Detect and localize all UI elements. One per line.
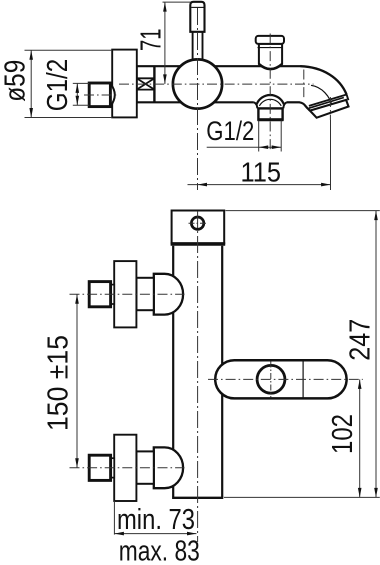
dim min73 line: [114, 533, 196, 535]
svg-text:115: 115: [241, 157, 282, 188]
diverter knob body: [259, 44, 282, 69]
svg-text:150 ±15: 150 ±15: [42, 335, 74, 431]
dim min73 extension line left: [113, 501, 115, 535]
dim 247 extension line top: [225, 210, 379, 212]
centerline: diverter axis: [269, 34, 271, 153]
shower outlet nipple G1/2: [258, 108, 282, 119]
diverter knob base arc (thick): [259, 64, 282, 69]
bottom inlet nut: [89, 455, 110, 480]
dim ø59 line: [30, 50, 32, 117]
top inlet cylinder: [136, 278, 153, 310]
shower outlet dome inner arc (thin): [259, 99, 281, 106]
spout underside step: [299, 102, 310, 110]
wall escutcheon (side): [112, 50, 137, 118]
dim G1/2 bottom extension lines: [258, 121, 260, 152]
centerline: main body axis: [119, 83, 314, 85]
centerline: lever axis: [197, 8, 199, 190]
svg-text:max. 83: max. 83: [119, 535, 200, 565]
centerline: nut axis: [84, 94, 119, 96]
lever rod: [192, 32, 194, 62]
check valve box verticals: [136, 66, 138, 102]
capsule seam line: [302, 361, 304, 398]
union bead: [110, 84, 114, 107]
dim 150 line: [76, 294, 78, 468]
top inlet union bulge: [154, 274, 183, 315]
shower outlet left wing: [254, 102, 258, 108]
svg-text:102: 102: [327, 414, 359, 454]
bracket bottom thick line: [171, 242, 226, 245]
dim G1/2 left line: [76, 83, 78, 105]
top inlet escutcheon: [114, 261, 136, 327]
spout outer bend curve: [300, 66, 346, 94]
dim ø59 extension lines: [25, 49, 113, 51]
fixing screw: [191, 217, 203, 229]
spout aerator: [310, 100, 349, 118]
centerline: capsule axis: [208, 378, 363, 380]
spout collar (ring groove): [309, 95, 347, 106]
spout inner bend curve (thin): [311, 85, 332, 107]
dim G1/2 bottom line: [207, 146, 282, 148]
svg-text:247: 247: [345, 319, 377, 361]
svg-text:G1/2: G1/2: [206, 116, 254, 146]
dim 71 extension line top: [163, 1, 191, 3]
column body: [173, 246, 222, 498]
centerline: bottom inlet axis: [70, 467, 185, 469]
inlet nut G1/2 (side): [89, 83, 110, 107]
mounting bracket: [172, 211, 225, 244]
centerline: top inlet axis: [70, 293, 185, 295]
dim G1/2 left extension lines: [73, 82, 89, 84]
bottom inlet ring: [111, 458, 115, 477]
centerline: column axis: [197, 211, 199, 542]
svg-text:min. 73: min. 73: [117, 504, 195, 536]
wire: body band top edge: [137, 65, 301, 67]
shower outlet nipple top edge: [257, 107, 283, 109]
spout capsule (front): [215, 360, 346, 398]
svg-text:71: 71: [135, 28, 167, 51]
diverter knob seam line: [258, 47, 283, 49]
dim 71 line: [164, 2, 166, 84]
dim 115 line: [188, 184, 331, 186]
dim bottom extension line: [224, 496, 380, 498]
bottom inlet cylinder: [136, 451, 153, 483]
check valve X diagonals: [137, 79, 154, 90]
top inlet nut: [89, 282, 110, 307]
centerline: outlet axis: [329, 97, 331, 120]
shower outlet right wing: [283, 102, 287, 108]
wire: body band bottom edge left of shower outlet: [137, 101, 254, 103]
bottom inlet escutcheon: [114, 435, 136, 501]
check valve square horizontals: [137, 77, 155, 79]
top inlet ring: [111, 285, 115, 304]
lever grip: [190, 2, 204, 32]
control knob circle: [173, 59, 222, 108]
centerline: bend vertical: [303, 70, 305, 100]
wire: body band bottom edge right of shower outlet: [287, 101, 300, 103]
shower outlet dome outer arc: [257, 95, 284, 104]
diverter knob (front): [257, 365, 285, 393]
bottom inlet union bulge: [154, 447, 183, 488]
svg-text:G1/2: G1/2: [42, 59, 74, 112]
svg-text:ø59: ø59: [0, 60, 32, 102]
centerline: knob vertical: [270, 362, 272, 398]
column bottom edge: [172, 497, 223, 499]
dim 247 line: [375, 211, 377, 498]
diverter knob lip: [256, 36, 284, 44]
dim 102 line: [359, 379, 361, 497]
